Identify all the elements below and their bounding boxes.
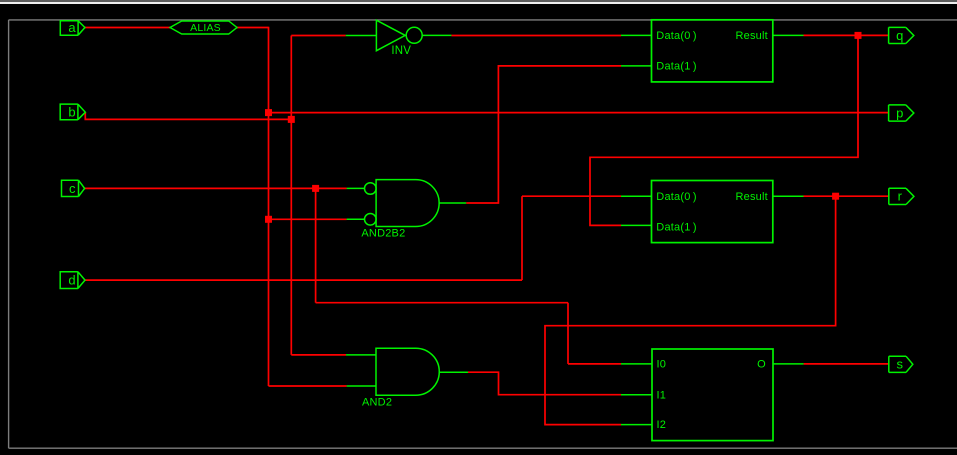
svg-text:r: r (898, 189, 903, 204)
wire net b: step at port b (85, 112, 291, 119)
wire net a: port a to ALIAS (85, 27, 170, 29)
wire MUX1 Result to port q (804, 34, 889, 36)
svg-text:p: p (896, 105, 903, 120)
svg-text:Data(1 ): Data(1 ) (656, 221, 696, 233)
gate AND2 (376, 348, 439, 395)
input port b (60, 104, 85, 120)
svg-text:Result: Result (736, 30, 768, 42)
wire net r branch: down to LUT3 I2 (545, 196, 836, 424)
pin stub AND2B2 input 1 (347, 187, 365, 189)
wire net a: vertical bus x=268.5 (268, 27, 270, 386)
svg-text:I0: I0 (657, 359, 667, 371)
svg-text:Data(1 ): Data(1 ) (656, 61, 696, 73)
svg-text:b: b (68, 105, 75, 120)
ALIAS flag (170, 21, 237, 34)
wire net d: vertical x=522 up (521, 196, 523, 280)
wire net a branch: long horizontal to output p (269, 112, 889, 114)
wire net b: vertical bus x=291.3 (290, 36, 292, 355)
pin stub MUX1 Result (773, 34, 804, 36)
svg-text:AND2: AND2 (362, 396, 392, 408)
svg-text:INV: INV (391, 45, 411, 57)
svg-text:O: O (757, 359, 766, 371)
wire AND2 output run to LUT3 I1 (468, 372, 621, 395)
pin stub LUT3 O (773, 363, 804, 365)
svg-text:I1: I1 (657, 389, 667, 401)
mux U1 (652, 20, 773, 82)
inverter INV (376, 20, 422, 51)
junction net r branch (832, 193, 839, 200)
wire net c: horizontal y=302.7 (316, 302, 568, 304)
pin stub INV input (346, 35, 377, 37)
junction net a / p wire (265, 109, 272, 116)
wire net a branch: to AND2B2 input 2 (269, 218, 347, 220)
pin stub AND2B2 input 2 (347, 218, 365, 220)
svg-text:Data(0 ): Data(0 ) (656, 30, 696, 42)
junction net b wire end (288, 116, 295, 123)
junction net q branch (855, 32, 862, 39)
svg-text:q: q (896, 28, 903, 43)
svg-text:Result: Result (736, 191, 768, 203)
wire net c: port c to AND2B2 input 1 (85, 187, 347, 189)
mux U2 (652, 181, 773, 243)
pin stub MUX2 Data(1) (621, 224, 652, 226)
wire net b branch: to AND2 input 1 (291, 354, 346, 356)
pin stub AND2 output (439, 371, 468, 373)
output port s (889, 356, 913, 372)
wire INV output to MUX1 Data(0) (451, 35, 621, 37)
svg-text:Data(0 ): Data(0 ) (656, 191, 696, 203)
pin stub MUX1 Data(1) (621, 65, 652, 67)
output port r (889, 188, 914, 204)
wire net c: to LUT3 I0 (568, 363, 621, 365)
input port d (60, 272, 85, 289)
wire net b branch: to INV input (291, 35, 345, 37)
pin stub LUT3 I1 (621, 394, 652, 396)
svg-text:s: s (897, 357, 904, 372)
pin stub INV output (422, 34, 451, 36)
wire LUT3 O to port s (804, 363, 889, 365)
gate AND2B2 (365, 180, 440, 227)
junction net c / AND2B2 input 1 (312, 185, 319, 192)
pin stub AND2B2 output (439, 202, 466, 204)
svg-text:c: c (69, 181, 76, 196)
wire net a: ALIAS to corner (237, 27, 269, 29)
wire net c: vertical x=315.6 (315, 188, 317, 302)
svg-text:I2: I2 (657, 419, 667, 431)
wire MUX2 Result to port r (804, 195, 889, 197)
wire net d: port d east run (85, 279, 522, 281)
input port a (60, 21, 85, 35)
svg-text:AND2B2: AND2B2 (361, 228, 405, 240)
svg-text:ALIAS: ALIAS (190, 22, 221, 34)
wire net a branch: to AND2 input 2 (269, 385, 347, 387)
svg-text:d: d (68, 273, 75, 288)
input port c (62, 180, 85, 196)
pin stub LUT3 I2 (621, 424, 652, 426)
junction net a / AND2B2 input 2 (265, 216, 272, 223)
svg-text:a: a (68, 20, 76, 35)
pin stub AND2 input 2 (347, 385, 376, 387)
pin stub LUT3 I0 (621, 363, 652, 365)
pin stub MUX2 Result (773, 195, 804, 197)
pin stub AND2 input 1 (346, 354, 376, 356)
pin stub MUX1 Data(0) (621, 34, 652, 36)
pin stub MUX2 Data(0) (621, 195, 652, 197)
wire net c: vertical x=568 (567, 303, 569, 364)
lut U3 (652, 349, 773, 441)
toolbar bottom edge strip (0, 0, 957, 2)
output port p (889, 105, 914, 121)
output port q (889, 27, 914, 43)
wire AND2B2 output run (466, 66, 621, 203)
wire net d: to MUX2 Data(0) (522, 195, 621, 197)
wire net q branch: down and to MUX2 Data(1) (590, 35, 858, 225)
